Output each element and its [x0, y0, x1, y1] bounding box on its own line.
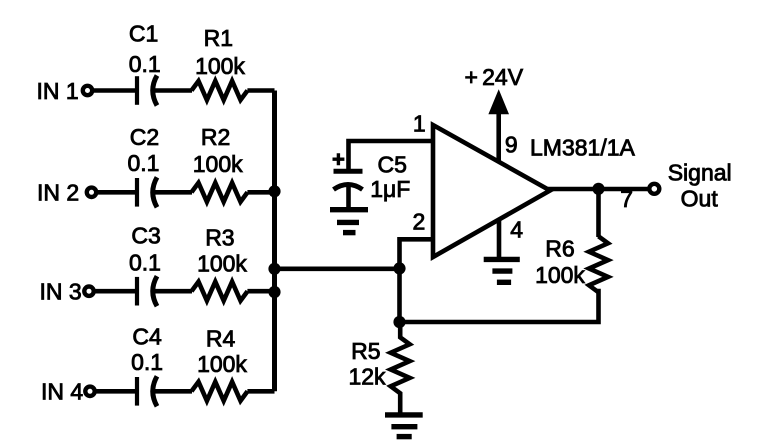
wire C2 to R2	[153, 190, 193, 195]
svg-text:9: 9	[505, 132, 518, 158]
svg-text:0.1: 0.1	[129, 250, 161, 276]
wire R6 to feedback node	[400, 289, 599, 322]
wire R1 to bus corner	[247, 88, 274, 93]
svg-text:R3: R3	[205, 224, 234, 250]
svg-text:R6: R6	[545, 235, 574, 261]
svg-text:R2: R2	[201, 124, 230, 150]
svg-text:2: 2	[413, 209, 426, 235]
wire node to pin2	[400, 239, 432, 268]
resistor R6	[589, 236, 608, 292]
node IN1 terminal	[83, 86, 92, 95]
wire pin1 to C5	[349, 141, 432, 169]
svg-text:C2: C2	[130, 124, 159, 150]
svg-text:12k: 12k	[348, 364, 386, 390]
svg-text:0.1: 0.1	[128, 150, 160, 176]
capacitor C5	[333, 153, 363, 207]
svg-text:100k: 100k	[193, 151, 243, 177]
wire output	[548, 187, 649, 192]
node IN3 terminal	[84, 287, 93, 296]
junction inverting node	[393, 262, 405, 274]
wire IN4 to C4	[97, 389, 136, 394]
wire node down to feedback node	[397, 269, 402, 322]
wire IN1 to C1	[94, 88, 135, 93]
capacitor C1	[137, 76, 157, 106]
svg-text:R1: R1	[204, 25, 233, 51]
op-amp U1 LM381/1A	[433, 125, 550, 257]
junction output node	[592, 183, 604, 195]
svg-text:0.1: 0.1	[131, 349, 163, 375]
wire output to R6	[596, 189, 601, 237]
svg-text:0.1: 0.1	[129, 51, 161, 77]
wire C1 to R1	[153, 88, 193, 93]
svg-text:IN 1: IN 1	[37, 78, 79, 104]
wire R4 to bus corner	[247, 389, 274, 394]
svg-text:4: 4	[510, 217, 523, 243]
resistor R2	[192, 183, 248, 202]
wire IN2 to C2	[98, 190, 135, 195]
resistor R5	[391, 322, 410, 413]
svg-text:C5: C5	[378, 152, 407, 178]
svg-text:Out: Out	[681, 186, 719, 212]
svg-text:7: 7	[620, 186, 633, 212]
wire summing bus vertical	[272, 91, 277, 392]
ground pin4	[484, 220, 520, 283]
ground under R5	[385, 415, 423, 437]
capacitor C3	[137, 276, 157, 306]
wire C4 to R4	[153, 389, 193, 394]
svg-text:C3: C3	[131, 222, 160, 248]
wire R2 to bus	[247, 190, 274, 195]
svg-text:100k: 100k	[535, 262, 585, 288]
svg-text:Signal: Signal	[668, 160, 732, 186]
junction bus tap	[268, 263, 280, 275]
junction row2-bus	[268, 185, 280, 197]
resistor R4	[192, 382, 248, 401]
svg-text:C4: C4	[132, 324, 162, 350]
svg-text:1: 1	[413, 111, 426, 137]
+24V supply arrow pin9	[490, 91, 508, 161]
svg-text:LM381/1A: LM381/1A	[530, 135, 636, 161]
resistor R3	[192, 282, 248, 301]
svg-text:100k: 100k	[197, 351, 247, 377]
svg-text:IN 2: IN 2	[37, 180, 79, 206]
wire R3 to bus	[247, 289, 274, 294]
node Signal Out terminal	[649, 184, 659, 194]
resistor R1	[192, 81, 248, 100]
wire C3 to R3	[153, 289, 193, 294]
wire bus tap to inverting node	[275, 266, 400, 271]
svg-text:1μF: 1μF	[370, 176, 410, 202]
wire IN3 to C3	[96, 289, 136, 294]
svg-text:R4: R4	[206, 326, 236, 352]
svg-text:+24V: +24V	[465, 64, 524, 90]
svg-text:R5: R5	[351, 338, 380, 364]
svg-text:C1: C1	[129, 20, 158, 46]
svg-text:100k: 100k	[197, 251, 247, 277]
junction row3-bus	[268, 286, 280, 298]
junction feedback node	[393, 316, 405, 328]
ground under C5	[330, 210, 368, 233]
capacitor C4	[137, 376, 157, 406]
capacitor C2	[137, 177, 157, 207]
svg-text:100k: 100k	[195, 53, 245, 79]
svg-text:IN 4: IN 4	[41, 379, 83, 405]
svg-text:IN 3: IN 3	[40, 279, 82, 305]
node IN4 terminal	[85, 387, 94, 396]
node IN2 terminal	[87, 188, 96, 197]
